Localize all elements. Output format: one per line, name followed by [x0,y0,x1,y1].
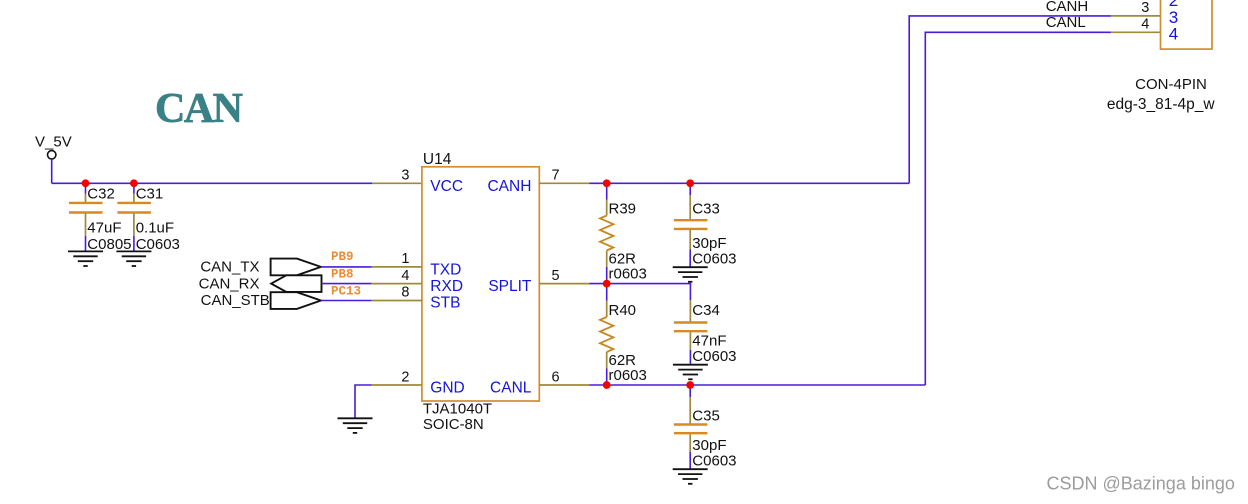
wire CANH horizontal [590,182,910,184]
svg-text:C32: C32 [87,186,115,203]
ground under C32 [68,251,103,266]
svg-text:47nF: 47nF [692,332,726,349]
svg-text:edg-3_81-4p_w: edg-3_81-4p_w [1107,96,1216,113]
svg-text:C0603: C0603 [692,251,736,268]
junction dot C35 top [686,381,694,389]
pin 5 stub SPLIT [539,283,589,285]
svg-text:CAN_STB: CAN_STB [201,292,270,309]
svg-text:4: 4 [1169,24,1178,43]
capacitor C34 [674,300,737,365]
svg-text:CANH: CANH [487,178,531,195]
svg-text:2: 2 [401,369,409,385]
svg-text:PC13: PC13 [331,284,361,298]
svg-text:SOIC-8N: SOIC-8N [423,416,484,433]
svg-text:3: 3 [1141,0,1149,16]
wire STB [321,300,372,302]
pin 3 stub VCC [372,182,422,184]
svg-text:CAN_RX: CAN_RX [199,275,260,292]
junction dot R39 top [603,179,611,187]
capacitor C35 [674,385,737,470]
svg-text:C31: C31 [136,186,164,203]
svg-text:r0603: r0603 [609,367,647,384]
ground at pin 2 [338,418,373,433]
svg-text:CANH: CANH [1046,0,1089,15]
svg-text:6: 6 [552,369,560,385]
svg-text:C33: C33 [692,201,720,218]
connector pin 3 stub [1111,15,1161,17]
svg-text:CAN_TX: CAN_TX [200,259,259,276]
ground under C34 [673,365,708,380]
svg-text:V_5V: V_5V [35,134,72,151]
pin 8 stub STB [372,300,422,302]
svg-text:C0805: C0805 [87,236,131,253]
svg-text:R40: R40 [609,302,637,319]
pin 7 stub CANH [539,182,589,184]
capacitor C32 [69,183,132,253]
svg-text:7: 7 [552,168,560,184]
wire RXD [322,283,372,285]
pin 6 stub CANL [539,384,589,386]
svg-text:C0603: C0603 [692,453,736,470]
svg-text:4: 4 [401,268,409,284]
ground under C35 [673,469,708,484]
power flag V_5V [35,134,72,160]
wire CANL riser [925,32,1111,385]
svg-text:5: 5 [552,268,560,284]
wire TXD [321,266,372,268]
svg-text:C35: C35 [692,408,720,425]
wire CANL horizontal [590,384,926,386]
junction dot C33 top [686,179,694,187]
ground under C31 [116,251,151,266]
wire VCC horizontal [52,182,373,184]
svg-text:30pF: 30pF [692,235,726,252]
port flag CAN_TX [200,259,321,276]
ground under C33 [673,267,708,282]
op-amp U14 IC body [422,151,539,433]
svg-text:R39: R39 [609,201,637,218]
svg-text:VCC: VCC [430,178,463,195]
svg-text:PB9: PB9 [331,250,354,264]
svg-text:4: 4 [1141,16,1149,32]
svg-text:CANL: CANL [490,379,532,396]
capacitor C31 [117,183,180,253]
svg-text:3: 3 [401,168,409,184]
svg-text:47uF: 47uF [87,220,121,237]
svg-text:8: 8 [401,285,409,301]
svg-text:CANL: CANL [1046,14,1086,31]
svg-text:GND: GND [430,379,464,396]
svg-text:TJA1040T: TJA1040T [423,401,492,418]
svg-text:PB8: PB8 [331,268,354,282]
junction dot R39/R40 SPLIT [603,280,611,288]
junction dot C31/VCC [130,179,138,187]
port flag CAN_STB [201,292,321,309]
junction dot C32/VCC [82,179,90,187]
svg-text:30pF: 30pF [692,437,726,454]
wire V_5V vertical [51,159,53,183]
connector CON1 body [1161,0,1213,49]
junction dot R40 bottom [603,381,611,389]
wire CANH riser [909,16,1111,183]
capacitor C33 [674,183,737,267]
svg-text:0.1uF: 0.1uF [136,220,174,237]
pin 4 stub RXD [372,283,422,285]
svg-text:SPLIT: SPLIT [488,278,532,295]
pin 1 stub TXD [372,266,422,268]
port flag CAN_RX [199,275,322,292]
svg-text:CSDN @Bazinga bingo: CSDN @Bazinga bingo [1047,473,1235,493]
connector pin 4 stub [1111,31,1161,33]
svg-text:r0603: r0603 [609,266,647,283]
svg-text:C34: C34 [692,302,720,319]
svg-text:C0603: C0603 [692,348,736,365]
svg-text:1: 1 [401,251,409,267]
pin 2 stub GND [372,384,422,386]
svg-text:U14: U14 [423,151,452,168]
wire SPLIT [590,284,691,300]
svg-text:CAN: CAN [155,86,243,132]
svg-text:RXD: RXD [430,278,463,295]
svg-text:C0603: C0603 [136,236,180,253]
svg-text:TXD: TXD [430,261,461,278]
resistor R39 [600,183,647,283]
svg-text:STB: STB [430,295,460,312]
resistor R40 [600,284,647,385]
wire GND pin to ground [355,385,372,418]
svg-text:CON-4PIN: CON-4PIN [1135,76,1207,93]
